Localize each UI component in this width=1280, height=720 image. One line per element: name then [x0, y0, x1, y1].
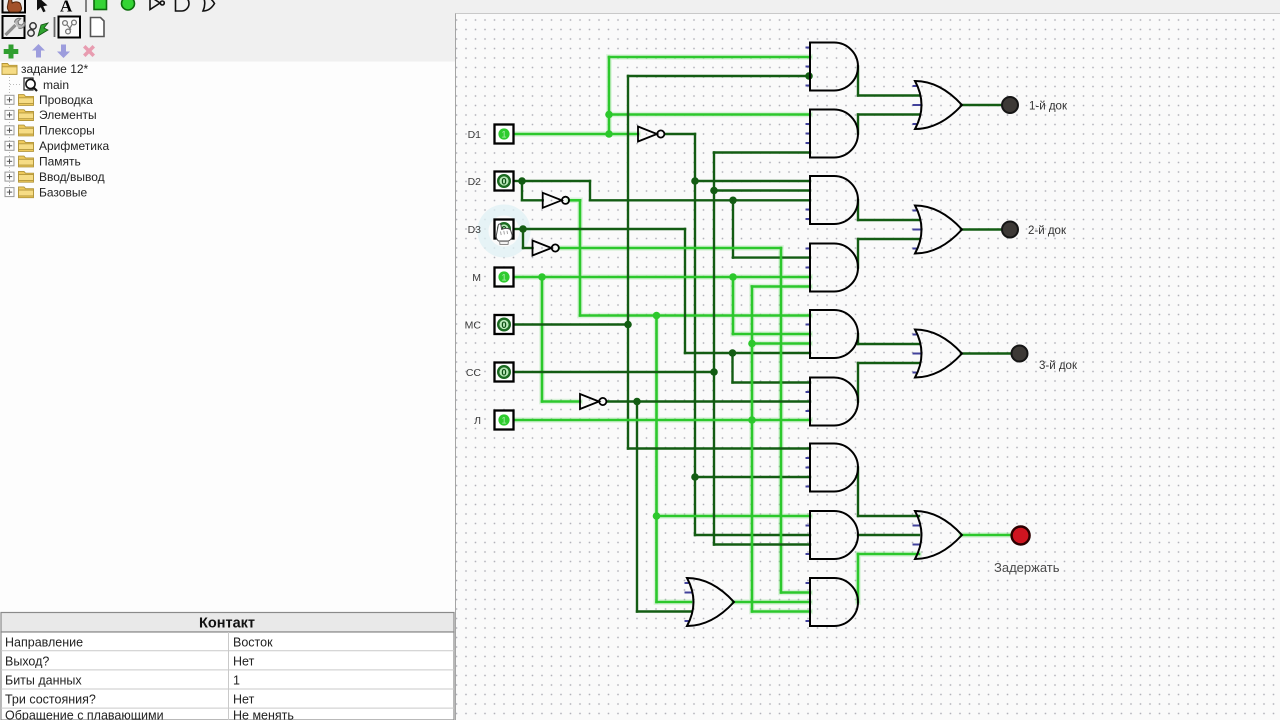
tree guide line — [9, 74, 11, 192]
input pin D3 — [495, 220, 514, 239]
bright wire glow — [514, 57, 1013, 612]
AND gate A1 — [810, 43, 858, 91]
junction CC riser — [710, 368, 718, 376]
wire NOT4 out: row y401 to AND6 input3 — [608, 400, 810, 402]
svg-text:Память: Память — [39, 155, 81, 169]
wire OR2 out to LED2 — [961, 228, 1002, 230]
junction NOT1/AND7 branch — [691, 473, 699, 481]
wire NOT2 out: bubble to corner — [569, 199, 580, 202]
attr toolbar: move down button — [57, 45, 70, 59]
wire AND9 out rise — [857, 554, 860, 602]
junction D2 at pin fanout — [518, 177, 526, 185]
NOT gate N2 (D2 inverter) — [543, 193, 562, 208]
wire NOT4 out: to OR5 input4 — [637, 610, 691, 612]
wire CC: vertical x714 — [713, 153, 715, 545]
wire L: pin row to AND6 input5 — [514, 419, 811, 422]
wire NOT3 out: vertical x781 — [780, 248, 783, 593]
wire M: to NOT4 input — [542, 400, 580, 403]
AND gate A8 — [810, 511, 858, 559]
AND gate A6 — [810, 378, 858, 426]
junction CC/AND3 branch — [710, 187, 718, 195]
wire AND8 out to OR4 input3 — [858, 534, 919, 536]
wire AND4 out rise — [857, 239, 859, 268]
svg-text:Восток: Восток — [233, 635, 273, 649]
wire AND6 out to OR3 input4 — [858, 362, 919, 364]
wire AND5 out drop — [857, 334, 859, 344]
wire M: branch to AND5 input3 — [733, 333, 810, 336]
canvas background — [456, 14, 1280, 720]
wire NOT1 out: branch to AND7 input4 — [695, 476, 810, 478]
wire AND3 out to OR2 input2 — [858, 219, 919, 221]
unconnected AND input stubs — [806, 48, 811, 622]
svg-text:Контакт: Контакт — [199, 616, 255, 632]
AND gate A2 — [810, 110, 858, 158]
svg-text:0: 0 — [501, 368, 506, 379]
AND gate A5 — [810, 310, 858, 358]
wire D1: branch to AND2 input1 — [609, 113, 810, 116]
tree item main: magnifier icon — [10, 78, 37, 91]
junction NOT4/OR5 branch — [633, 398, 641, 406]
svg-text:Плексоры: Плексоры — [39, 124, 95, 138]
svg-text:Направление: Направление — [5, 635, 83, 649]
wire CC: branch to AND3 input2 — [714, 189, 810, 191]
tree folder Базовые — [5, 185, 87, 199]
wire NOT3 out: row y248 — [560, 247, 781, 250]
wire D3: pin to junction — [514, 228, 524, 230]
wire NOT3 out: to AND9 input2 — [781, 591, 810, 594]
svg-text:Базовые: Базовые — [39, 185, 87, 199]
svg-text:Ввод/вывод: Ввод/вывод — [39, 170, 105, 184]
attribute table body — [1, 632, 454, 720]
svg-text:2-й док: 2-й док — [1028, 225, 1067, 237]
tree root folder icon — [2, 64, 17, 75]
wire D2: branch drop x733 — [732, 200, 734, 257]
svg-text:Не менять: Не менять — [233, 709, 294, 720]
LED output 3-y dok — [1012, 346, 1028, 362]
svg-text:Задержать: Задержать — [994, 560, 1060, 575]
attr toolbar: remove button — [83, 45, 95, 57]
wire OR4 out to LED4 — [961, 534, 1012, 537]
toolbar: edit/select tool arrow — [37, 0, 48, 12]
wire AND5 out to OR3 input2 — [858, 343, 919, 345]
wire AND9 out to OR4 input5 — [858, 553, 919, 556]
wire NOT2 out: row y315 to AND5 input1 — [580, 314, 810, 317]
AND gate A7 — [810, 444, 858, 492]
wire NOT1 out: vertical x695 — [694, 134, 696, 535]
poke halo around pin D3 — [483, 210, 525, 252]
wire MC: vertical x628 — [627, 76, 629, 449]
wire D2: to NOT2 input — [522, 199, 543, 201]
wire L: branch to AND5 input4 — [752, 342, 810, 345]
svg-text:A: A — [60, 0, 73, 16]
wire CC: top branch to AND2 input5 — [714, 151, 810, 153]
explorer toolbar: new file icon — [91, 18, 105, 37]
junction MC riser — [624, 321, 632, 329]
junction M/NOT4 branch — [538, 273, 546, 281]
input pin L — [495, 411, 514, 430]
wire MC: bottom branch to AND7 input1 — [628, 447, 810, 449]
toolbar: OR gate tool — [203, 0, 215, 11]
wire NOT2 out: vertical x580 — [579, 200, 582, 315]
AND gate A4 — [810, 244, 858, 292]
wire D3: branch to AND6 input1 — [733, 381, 811, 383]
wire AND1 out drop — [857, 67, 859, 96]
input pin D1 — [495, 125, 514, 144]
wire D1: pin to junction — [514, 133, 610, 136]
wire OR1 out to LED1 — [961, 104, 1002, 106]
wire OR3 out to LED3 — [961, 352, 1011, 354]
toolbar: AND gate tool — [176, 0, 190, 11]
wire D3: branch drop x732 — [731, 353, 733, 383]
wire NOT1 out: bubble to corner — [665, 133, 695, 135]
wire D3: vertical x685 — [684, 229, 686, 353]
wire AND3 out drop — [857, 200, 859, 220]
panel/canvas divider — [455, 14, 457, 720]
tree folder Элементы — [5, 108, 97, 122]
explorer toolbar: toolbox button (selected) — [3, 16, 25, 38]
wire D3: row y353 to AND5 input5 — [685, 352, 810, 354]
wire D1: vertical riser x609 — [608, 57, 611, 134]
OR gate O3 — [915, 330, 962, 378]
svg-text:Обращение с плавающими: Обращение с плавающими — [5, 709, 164, 720]
explorer toolbar: appearance button (boxed) — [59, 17, 81, 38]
junction L/AND5 branch — [748, 340, 756, 348]
wire NOT1 out: branch to AND3 input1 — [695, 180, 810, 182]
wire NOT1 out: branch to AND8 input3 — [695, 534, 810, 536]
wire D2: junction to corner — [522, 180, 590, 182]
wire M: pin row to AND4 input4 — [514, 276, 811, 279]
svg-text:Л: Л — [474, 415, 481, 427]
LED output 1-y dok — [1002, 97, 1018, 113]
AND gate A3 — [810, 176, 858, 224]
attr toolbar: add button — [4, 45, 19, 59]
wire D1: top branch to AND1 input2 — [609, 56, 810, 59]
wire AND2 out rise — [857, 115, 859, 134]
junction L riser — [748, 416, 756, 424]
svg-text:М: М — [472, 272, 481, 284]
svg-text:задание 12*: задание 12* — [21, 62, 89, 76]
wire D2: junction drop to NOT2 row — [521, 181, 523, 200]
svg-text:1-й док: 1-й док — [1029, 101, 1068, 113]
svg-text:0: 0 — [501, 177, 506, 188]
wire OR5 out to AND9 input3 — [733, 601, 810, 604]
attr toolbar: move up button — [32, 44, 45, 58]
input pin D2 — [495, 172, 514, 191]
wire AND7 out drop — [857, 468, 859, 517]
wire L: vertical x752 — [751, 287, 754, 612]
toolbar: NOT gate tool — [150, 0, 164, 10]
junction at AND1 input4 — [805, 72, 813, 80]
AND gate A9 — [810, 578, 858, 626]
svg-text:D1: D1 — [468, 129, 482, 141]
wire L: bottom branch to AND9 input4 — [752, 610, 810, 613]
svg-text:D3: D3 — [468, 224, 482, 236]
wire D2: pin to junction — [514, 180, 523, 182]
toolbar bottom border — [455, 13, 1280, 15]
svg-text:МС: МС — [465, 319, 482, 331]
svg-text:Элементы: Элементы — [39, 108, 97, 122]
wire D3: junction drop to NOT3 row — [522, 229, 524, 248]
svg-text:СС: СС — [466, 367, 482, 379]
wire D2: branch to AND4 input2 — [733, 256, 810, 258]
explorer toolbar separator — [54, 17, 56, 37]
wire NOT2 out: vertical x656 — [655, 316, 658, 603]
toolbar: input pin tool — [94, 0, 107, 10]
svg-text:3-й док: 3-й док — [1039, 360, 1078, 372]
mouse hand cursor over pin D3 — [496, 224, 512, 245]
wire CC: bottom branch to AND8 input4 — [714, 543, 810, 545]
wire NOT2 out: to OR5 input3 — [657, 601, 692, 604]
OR gate O4 — [915, 511, 962, 559]
svg-text:Биты данных: Биты данных — [5, 674, 82, 688]
wire CC: pin to junction — [514, 371, 715, 373]
wire MC: pin to junction — [514, 323, 629, 325]
input pin CC — [495, 363, 514, 382]
wire D1: junction to NOT1 input — [609, 133, 638, 136]
svg-text:Выход?: Выход? — [5, 654, 49, 668]
wire NOT4 out: vertical x637 — [636, 402, 638, 612]
junction NOT2 riser — [653, 312, 661, 320]
NOT gate N1 (D1 inverter) — [638, 127, 657, 142]
wire M: branch drop x733 — [732, 277, 735, 334]
tree folder Проводка — [5, 93, 93, 107]
svg-text:1: 1 — [501, 273, 506, 283]
wire L: top branch to AND4 input5 — [752, 285, 810, 288]
junction NOT2/AND8 branch — [653, 512, 661, 520]
junction D1 at NOT1 tap — [605, 130, 613, 138]
junction D1/AND2 branch — [605, 111, 613, 119]
wire NOT2 out: branch to AND8 input1 — [657, 515, 811, 518]
tree folder Ввод/вывод — [5, 170, 105, 184]
junction D3/AND6 branch — [729, 349, 737, 357]
svg-text:1: 1 — [501, 130, 506, 140]
junction D3 at pin fanout — [519, 225, 527, 233]
tree folder Плексоры — [5, 124, 95, 138]
input pin MC — [495, 315, 514, 334]
wire D3: to NOT3 input — [523, 247, 533, 249]
svg-text:Нет: Нет — [233, 693, 255, 707]
svg-text:0: 0 — [501, 320, 506, 331]
junction D2/AND4 branch — [729, 197, 737, 205]
NOT gate N4 (M inverter) — [580, 394, 599, 409]
svg-text:1: 1 — [501, 416, 506, 426]
wire D3: junction to corner x685 — [523, 228, 685, 230]
tree folder Память — [5, 155, 81, 169]
svg-text:D2: D2 — [468, 176, 482, 188]
toolbar separator — [85, 0, 87, 12]
svg-text:main: main — [43, 78, 69, 92]
svg-text:Три состояния?: Три состояния? — [5, 693, 96, 707]
unconnected OR input stubs — [685, 86, 923, 621]
wire D2: row y200 to AND3 input3 — [590, 199, 810, 201]
wire AND2 out to OR1 input4 — [858, 113, 919, 115]
svg-text:Проводка: Проводка — [39, 93, 93, 107]
left panel background — [0, 14, 455, 720]
svg-text:Арифметика: Арифметика — [39, 139, 109, 153]
svg-text:1: 1 — [233, 674, 240, 688]
attribute table header — [1, 613, 454, 633]
wire MC: top branch to AND1 input4 — [628, 75, 810, 77]
LED output 2-y dok — [1002, 222, 1018, 238]
tree folder Арифметика — [5, 139, 109, 153]
toolbar: poke tool button (selected) — [3, 0, 26, 13]
explorer toolbar: simulation hierarchy button — [28, 23, 48, 36]
wire AND6 out rise — [857, 363, 859, 402]
toolbar: output pin tool — [122, 0, 135, 10]
wire AND7 out to OR4 input1 — [858, 515, 919, 517]
input pin M — [495, 268, 514, 287]
NOT gate N3 (D3 inverter) — [533, 241, 552, 256]
wire AND1 out to OR1 input2 — [858, 94, 919, 96]
canvas grid dots — [456, 14, 1280, 720]
LED output Zaderzhat (lit red) — [1012, 527, 1030, 545]
OR gate O2 — [915, 206, 962, 254]
junction M/AND5 branch — [729, 273, 737, 281]
OR gate O1 — [915, 81, 962, 129]
wire M: branch drop x542 — [541, 277, 544, 402]
svg-text:Нет: Нет — [233, 654, 255, 668]
wire D2: jog down x590 — [589, 181, 591, 200]
toolbar background — [0, 0, 1280, 14]
wire AND4 out to OR2 input4 — [858, 238, 919, 240]
junction NOT1/AND3 branch — [691, 177, 699, 185]
OR gate O5 — [687, 578, 734, 626]
